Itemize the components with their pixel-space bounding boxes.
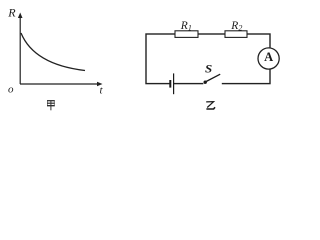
decaying curve R vs t (21, 33, 85, 71)
svg-text:o: o (8, 84, 14, 96)
svg-text:A: A (264, 50, 273, 64)
resistor R2 (225, 31, 247, 38)
circuit loop wire (rectangle) (146, 34, 270, 84)
battery cell: short thick negative bar (169, 80, 171, 88)
svg-text:t: t (100, 85, 104, 97)
svg-text:R1: R1 (180, 20, 192, 33)
graph vertical axis (R axis) (18, 13, 23, 85)
battery cell: tall thin positive bar (173, 73, 175, 94)
switch S contact dot (204, 81, 207, 84)
svg-text:S: S (205, 62, 213, 76)
resistor R1 (175, 31, 198, 38)
graph horizontal axis (t axis) (20, 82, 103, 86)
battery gap erase (171, 81, 173, 87)
caption 乙 (figure B) drawn as strokes (206, 102, 215, 109)
svg-text:R2: R2 (230, 20, 242, 33)
svg-text:R: R (7, 6, 16, 20)
ammeter U1 (circle) (258, 48, 279, 69)
switch gap erase (203, 81, 222, 87)
switch blade (205, 74, 220, 82)
caption 甲 (figure A) drawn as strokes (47, 100, 55, 110)
